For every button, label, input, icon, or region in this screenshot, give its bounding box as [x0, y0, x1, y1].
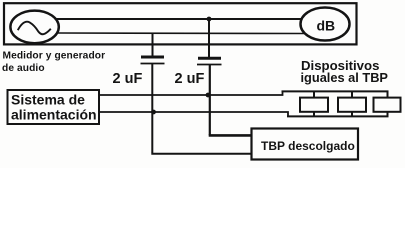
svg-text:de audio: de audio — [2, 63, 45, 74]
svg-text:2 uF: 2 uF — [113, 71, 143, 87]
svg-text:2 uF: 2 uF — [175, 71, 205, 87]
label: Medidor y generador de audio — [2, 51, 105, 75]
wire from C2 lead to TBP descolgado box — [209, 134, 252, 137]
svg-text:Sistema de: Sistema de — [11, 92, 85, 108]
capacitor C1 bottom lead down to lower TBP wire — [151, 64, 153, 154]
power supply box: Sistema de alimentacion — [8, 90, 100, 124]
capacitor C2 plates (2 uF) — [197, 58, 222, 64]
instrument box frame — [4, 3, 357, 44]
capacitor C1 value label 2 uF — [113, 71, 143, 87]
TBP device D3 — [374, 91, 401, 116]
svg-text:iguales al TBP: iguales al TBP — [301, 70, 389, 85]
wire from C1 lead to TBP descolgado box (bottom) — [151, 153, 251, 155]
junction dot on upper audio wire at C2 — [207, 17, 212, 22]
wire lower audio (generator to dB meter) — [58, 32, 306, 35]
device ladder top rail — [282, 90, 389, 92]
svg-text:TBP descolgado: TBP descolgado — [261, 139, 355, 153]
svg-text:alimentación: alimentación — [11, 107, 97, 123]
label: Dispositivos iguales al TBP — [301, 58, 389, 85]
capacitor C1 top lead — [152, 33, 154, 57]
capacitor C2 bottom lead down to TBP wire — [209, 65, 211, 136]
junction dot on upper supply wire at C2 — [206, 93, 211, 98]
junction dot on lower supply wire at C1 — [151, 110, 156, 115]
wire upper supply (box to device ladder) — [99, 91, 283, 95]
svg-text:dB: dB — [317, 18, 336, 34]
dB meter M1 — [301, 8, 350, 41]
svg-text:Medidor y generador: Medidor y generador — [3, 51, 106, 62]
TBP device D2 — [338, 91, 366, 116]
capacitor C2 value label 2 uF — [175, 71, 205, 87]
wire upper audio (generator to dB meter) — [56, 18, 301, 20]
audio generator G1 — [10, 11, 58, 44]
device ladder bottom rail — [287, 115, 389, 117]
wire lower supply (box to device ladder) — [99, 112, 288, 116]
capacitor C2 top lead — [208, 19, 210, 58]
TBP descolgado box — [252, 129, 359, 160]
capacitor C1 plates (2 uF) — [141, 57, 165, 64]
TBP device D1 — [300, 91, 328, 116]
